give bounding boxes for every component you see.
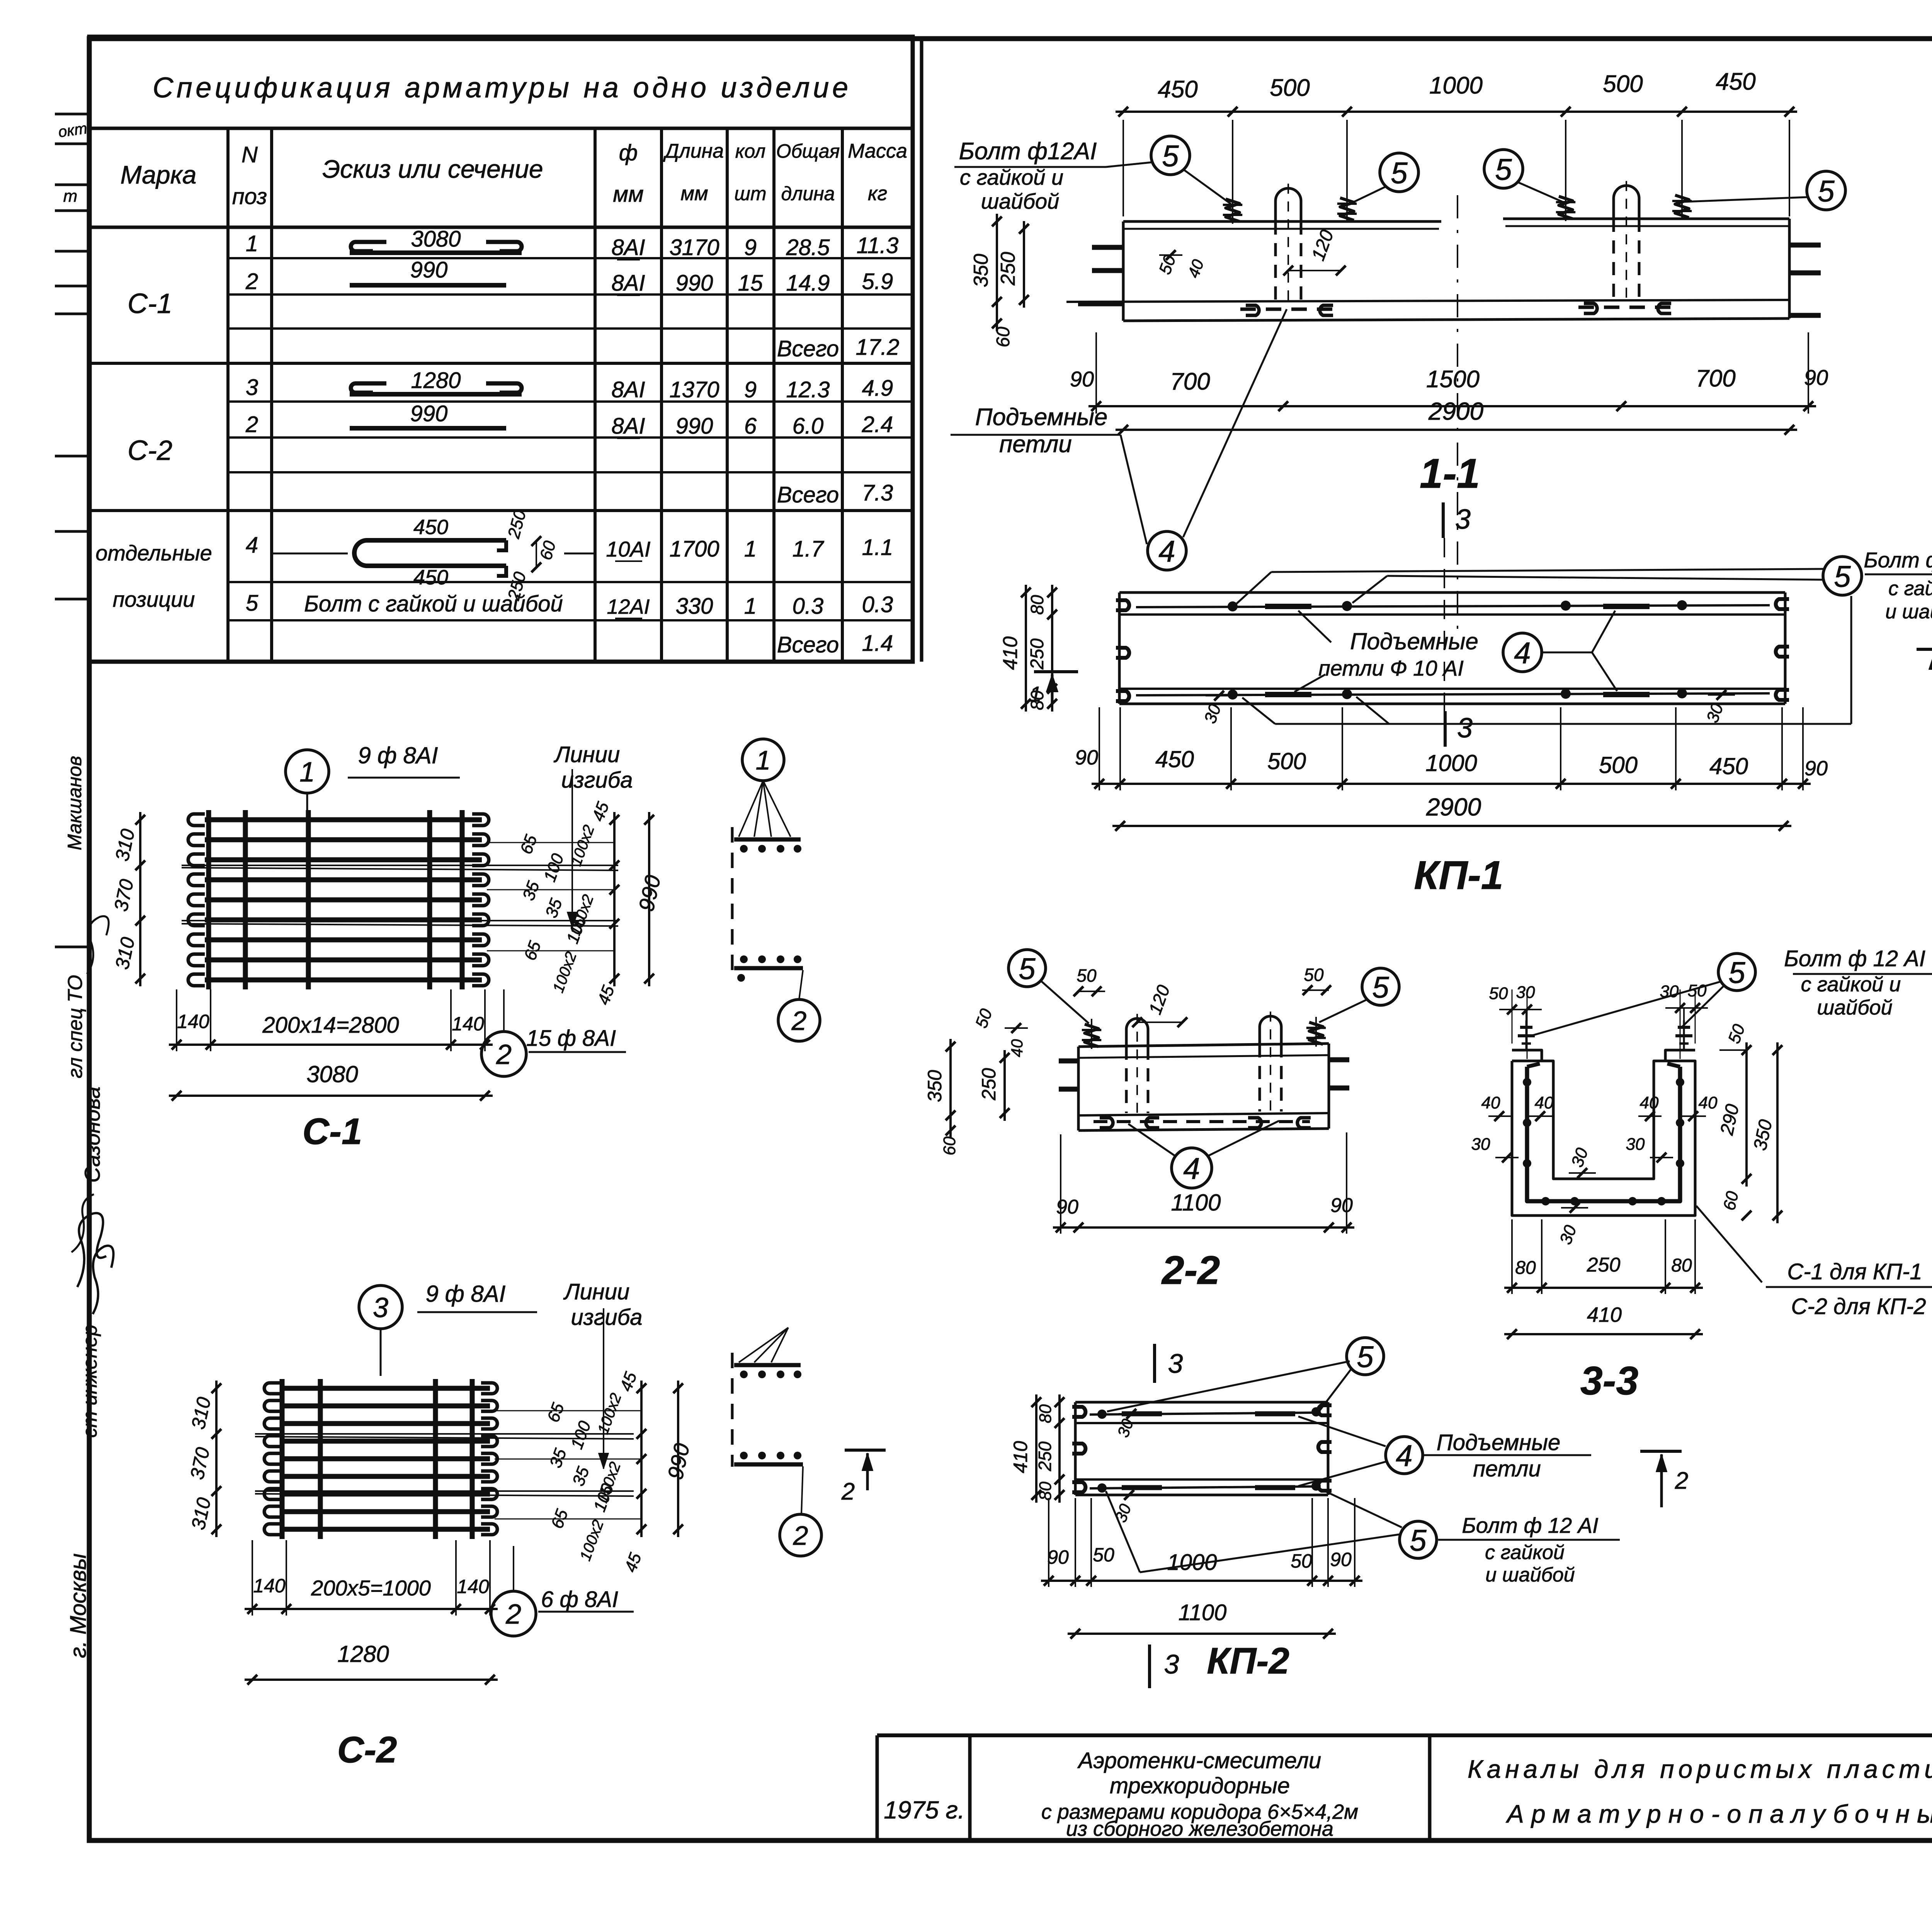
section 3-3: right dims 50 290 350 60 — [1716, 1021, 1782, 1223]
mesh С-1: right dims 990 and offsets — [487, 799, 665, 1007]
plan КП-1: outline — [1119, 592, 1785, 704]
svg-text:С-2: С-2 — [128, 435, 172, 466]
svg-text:45: 45 — [616, 1369, 641, 1394]
svg-text:50: 50 — [1489, 984, 1508, 1003]
svg-text:50: 50 — [1291, 1550, 1312, 1572]
svg-text:3: 3 — [246, 375, 258, 400]
svg-text:1000: 1000 — [1167, 1550, 1217, 1575]
svg-text:1.4: 1.4 — [862, 631, 893, 656]
svg-text:Болт ф 12 АІ: Болт ф 12 АІ — [1864, 548, 1932, 572]
section 3-3: rebar U (С-1/С-2) — [1523, 1064, 1684, 1205]
svg-text:КП-1: КП-1 — [1414, 853, 1503, 898]
plan КП-1: rebar bars with bolts — [1136, 600, 1770, 700]
svg-text:60: 60 — [536, 539, 560, 562]
plan КП-1: overall dim 2900 — [1112, 793, 1791, 831]
section 2-2: lifting loops dashed — [1126, 1011, 1281, 1113]
svg-text:700: 700 — [1170, 368, 1210, 395]
svg-text:90: 90 — [1047, 1546, 1069, 1568]
svg-text:450: 450 — [1716, 68, 1755, 95]
svg-text:3-3: 3-3 — [1580, 1359, 1638, 1403]
view 1-1: title — [1420, 450, 1480, 497]
svg-text:3: 3 — [1168, 1348, 1183, 1379]
svg-text:5: 5 — [1162, 139, 1179, 173]
svg-text:1: 1 — [756, 745, 771, 775]
section 2-2: поз4 bottom dashed bar — [1094, 1118, 1311, 1128]
left margin signature Сазонова — [80, 1086, 104, 1183]
svg-text:Марка: Марка — [120, 160, 196, 189]
svg-text:350: 350 — [1750, 1118, 1777, 1153]
svg-text:60: 60 — [940, 1136, 959, 1155]
svg-text:Линии: Линии — [563, 1279, 629, 1304]
svg-text:330: 330 — [676, 594, 713, 619]
svg-text:5: 5 — [1834, 559, 1851, 593]
svg-text:40: 40 — [1699, 1093, 1718, 1112]
svg-text:8АІ: 8АІ — [611, 377, 645, 402]
svg-text:3: 3 — [373, 1292, 388, 1323]
plan КП-2: overall dim 1100 — [1068, 1600, 1336, 1639]
svg-text:140: 140 — [177, 1011, 209, 1032]
svg-text:1370: 1370 — [669, 377, 719, 402]
left margin signature г. Москвы — [66, 1553, 91, 1658]
svg-text:с гайкой и: с гайкой и — [1801, 973, 1901, 996]
svg-text:450: 450 — [413, 516, 448, 539]
svg-text:40: 40 — [1481, 1093, 1500, 1112]
svg-text:990: 990 — [410, 257, 448, 283]
svg-text:50: 50 — [972, 1006, 996, 1030]
mesh С-1: left dims 310 370 310 — [110, 812, 145, 986]
title block: year 1975 — [884, 1796, 965, 1824]
svg-text:Болт ф 12 АІ: Болт ф 12 АІ — [1462, 1513, 1598, 1537]
svg-text:3080: 3080 — [306, 1061, 358, 1087]
svg-text:80: 80 — [1027, 595, 1047, 615]
svg-text:Эскиз или сечение: Эскиз или сечение — [322, 155, 543, 183]
svg-text:2900: 2900 — [1426, 793, 1481, 821]
svg-text:1: 1 — [744, 536, 757, 562]
svg-text:5: 5 — [1495, 152, 1512, 186]
table section label отдельные позиции — [95, 541, 212, 611]
left margin signature ст инженер — [79, 1325, 101, 1438]
svg-text:2: 2 — [841, 1478, 855, 1505]
table row поз 3: эскиз 1280 — [246, 368, 893, 402]
mesh С-2: left dims 310 370 310 — [186, 1381, 221, 1537]
svg-text:мм: мм — [613, 182, 644, 207]
section 3-3: bottom dims 80 250 80 and 410 — [1504, 1219, 1703, 1339]
svg-text:2900: 2900 — [1428, 397, 1484, 425]
mesh С-2: title — [337, 1729, 397, 1771]
svg-text:30: 30 — [1626, 1135, 1645, 1154]
svg-text:40: 40 — [1535, 1093, 1554, 1112]
svg-text:45: 45 — [621, 1550, 645, 1575]
plan КП-2: section mark 2 right — [1640, 1451, 1688, 1507]
svg-text:60: 60 — [1720, 1189, 1742, 1212]
svg-text:45: 45 — [588, 799, 613, 824]
svg-text:350: 350 — [970, 254, 992, 288]
mesh С-2: callout 2 with 6ф8АІ — [491, 1546, 634, 1636]
svg-text:7.3: 7.3 — [862, 480, 893, 506]
callout 5 circles (2-2) — [1009, 950, 1399, 1023]
table: Спецификация арматуры на одно изделие — [89, 37, 913, 662]
svg-text:4.9: 4.9 — [862, 376, 893, 401]
svg-text:2: 2 — [505, 1599, 521, 1630]
mesh С-2: right dims 990 and offsets — [495, 1369, 694, 1575]
svg-text:Всего: Всего — [777, 336, 839, 361]
callout 5 and label Болт ф12АІ (3-3) — [1531, 946, 1932, 1036]
svg-text:310: 310 — [187, 1395, 215, 1431]
section 2-2: bottom dims 90 1100 90 — [1053, 1132, 1354, 1234]
svg-text:17.2: 17.2 — [856, 335, 900, 360]
svg-text:50: 50 — [1688, 981, 1707, 1000]
svg-text:290: 290 — [1716, 1102, 1743, 1137]
svg-text:140: 140 — [457, 1576, 489, 1597]
svg-text:5: 5 — [1019, 952, 1036, 986]
svg-text:250: 250 — [1587, 1254, 1621, 1276]
section icon С-1: callout 1 — [739, 739, 791, 837]
svg-text:100x2: 100x2 — [594, 1391, 625, 1436]
svg-text:370: 370 — [186, 1445, 214, 1481]
svg-text:Линии: Линии — [553, 742, 620, 767]
plan КП-1: section mark 1 right — [1917, 649, 1932, 685]
svg-text:100: 100 — [567, 1418, 595, 1452]
svg-text:2: 2 — [245, 412, 258, 437]
svg-text:410: 410 — [1010, 1441, 1031, 1473]
svg-text:30: 30 — [1471, 1135, 1490, 1154]
svg-text:1.1: 1.1 — [862, 535, 893, 560]
svg-text:9 ф 8АІ: 9 ф 8АІ — [358, 742, 438, 768]
svg-text:8АІ: 8АІ — [611, 235, 645, 260]
svg-text:2-2: 2-2 — [1161, 1248, 1220, 1293]
svg-text:450: 450 — [413, 566, 448, 589]
svg-text:250: 250 — [1035, 1441, 1055, 1471]
svg-text:100x2: 100x2 — [549, 950, 580, 995]
view 1-1: protruding rebar ends left — [1078, 247, 1123, 304]
svg-text:990: 990 — [676, 271, 713, 296]
svg-text:Сазонова: Сазонова — [80, 1086, 104, 1183]
svg-text:5.9: 5.9 — [862, 269, 893, 294]
callout 5 and leaders (КП-1) — [1236, 548, 1932, 724]
svg-text:9: 9 — [744, 377, 757, 402]
svg-text:Каналы для пористых пластин К: Каналы для пористых пластин КП-1, КП-2. — [1468, 1755, 1932, 1783]
svg-text:9 ф 8АІ: 9 ф 8АІ — [426, 1281, 506, 1307]
svg-text:4: 4 — [1396, 1439, 1412, 1473]
view 1-1: centre dashed axis — [1457, 195, 1458, 630]
svg-text:N: N — [241, 142, 258, 167]
svg-text:изгиба: изгиба — [571, 1305, 643, 1330]
svg-text:90: 90 — [1056, 1196, 1078, 1218]
view 1-1: lifting loop left (поз 4) — [1240, 184, 1337, 315]
svg-text:5: 5 — [1357, 1340, 1374, 1374]
section icon С-1 (cross-section) — [732, 827, 803, 982]
plan КП-1: mesh hooks at ends — [1116, 599, 1789, 701]
svg-text:Всего: Всего — [777, 482, 839, 507]
callout 4 and label Подъемные петли (КП-2) — [1298, 1416, 1591, 1486]
svg-text:100: 100 — [540, 851, 568, 884]
svg-text:0.3: 0.3 — [793, 594, 824, 619]
svg-text:12.3: 12.3 — [786, 377, 830, 402]
plan КП-2: outline — [1075, 1402, 1328, 1495]
section 2-2: left dims — [924, 1006, 1028, 1155]
svg-text:12АІ: 12АІ — [607, 595, 650, 618]
svg-text:С-2: С-2 — [337, 1729, 397, 1771]
svg-text:отдельные: отдельные — [95, 541, 212, 565]
plan КП-2: rebar bars with bolts — [1090, 1407, 1321, 1493]
svg-text:28.5: 28.5 — [786, 235, 830, 260]
mesh С-2: fold lines — [255, 1434, 634, 1496]
mesh С-1: title — [303, 1111, 362, 1152]
svg-text:45: 45 — [594, 983, 618, 1007]
svg-text:500: 500 — [1603, 71, 1643, 97]
svg-text:90: 90 — [1070, 367, 1094, 391]
mesh С-2: callout 3 with 9ф8АІ — [359, 1281, 537, 1376]
svg-text:Всего: Всего — [777, 632, 839, 657]
svg-text:г. Москвы: г. Москвы — [66, 1553, 91, 1658]
svg-text:3: 3 — [1164, 1649, 1179, 1679]
section 2-2: bolts поз 5 — [1082, 1017, 1326, 1049]
svg-text:80: 80 — [1027, 690, 1047, 710]
svg-text:С-2 для КП-2: С-2 для КП-2 — [1791, 1294, 1926, 1319]
svg-text:3: 3 — [1455, 504, 1471, 535]
svg-text:90: 90 — [1075, 746, 1098, 769]
svg-text:90: 90 — [1804, 757, 1828, 780]
label Линии изгиба (С-2) — [563, 1279, 643, 1469]
svg-text:из сборного железобетона: из сборного железобетона — [1066, 1817, 1333, 1840]
plan КП-1: section mark 1 left — [1029, 672, 1078, 706]
svg-text:5: 5 — [1391, 156, 1408, 190]
section icon С-1: callout 2 — [778, 970, 820, 1041]
svg-text:шайбой: шайбой — [1817, 996, 1892, 1019]
svg-text:Спецификация арматуры на одн: Спецификация арматуры на одно изделие — [153, 72, 848, 104]
left margin signature Макшанов — [64, 756, 85, 850]
svg-text:15 ф 8АІ: 15 ф 8АІ — [526, 1026, 616, 1051]
svg-text:30: 30 — [1111, 1501, 1134, 1525]
callout 5 bottom and label Болт ф12АІ (КП-2) — [1106, 1489, 1620, 1586]
svg-text:50: 50 — [1725, 1021, 1749, 1046]
svg-text:1000: 1000 — [1425, 750, 1477, 776]
svg-text:Аэротенки-смесители: Аэротенки-смесители — [1077, 1748, 1321, 1773]
svg-text:200x5=1000: 200x5=1000 — [311, 1576, 431, 1600]
table row поз 1: эскиз 3080 — [246, 226, 898, 260]
mesh С-1: fold lines — [182, 865, 618, 926]
callout 5 top and leaders (КП-2) — [1107, 1338, 1384, 1411]
left margin stamp marks — [55, 114, 88, 947]
svg-text:2: 2 — [791, 1006, 807, 1036]
svg-text:35: 35 — [519, 878, 543, 903]
svg-text:50: 50 — [1093, 1544, 1114, 1566]
svg-text:с гайкой и: с гайкой и — [960, 165, 1063, 189]
callout 4 and label Подъемные петли (1-1) — [951, 309, 1287, 570]
label Болт ф12АІ с гайкой и шайбой (1-1) — [954, 138, 1151, 213]
divider line of drawing area — [920, 39, 923, 662]
svg-text:80: 80 — [1515, 1258, 1536, 1278]
svg-text:60: 60 — [993, 327, 1014, 347]
svg-text:шт: шт — [734, 183, 766, 204]
title block frame — [877, 1735, 1932, 1840]
svg-text:и шайбой: и шайбой — [1885, 601, 1932, 623]
svg-text:1000: 1000 — [1429, 72, 1483, 99]
plan КП-2: left dims 410 80 250 80 — [1010, 1394, 1065, 1503]
svg-text:3170: 3170 — [669, 235, 719, 260]
svg-text:30: 30 — [1201, 701, 1225, 726]
callout 4 (2-2) — [1128, 1121, 1279, 1188]
svg-text:1280: 1280 — [337, 1641, 389, 1667]
left margin signature гл спец ТО — [64, 975, 87, 1078]
svg-text:5: 5 — [1728, 955, 1745, 989]
svg-text:50: 50 — [1155, 252, 1180, 277]
plan КП-1: section mark 3 top — [1443, 502, 1471, 538]
svg-text:990: 990 — [634, 873, 665, 913]
svg-text:Болт ф12АІ: Болт ф12АІ — [959, 138, 1097, 165]
svg-text:гл спец ТО: гл спец ТО — [64, 975, 87, 1078]
svg-text:30: 30 — [1516, 983, 1535, 1002]
plan КП-2: bottom dims 90 50 1000 50 90 — [1041, 1498, 1362, 1587]
svg-text:100x2: 100x2 — [577, 1518, 607, 1563]
svg-text:1100: 1100 — [1179, 1600, 1227, 1625]
svg-text:65: 65 — [544, 1400, 568, 1425]
svg-text:500: 500 — [1599, 752, 1638, 778]
title block: sheet name — [1468, 1755, 1932, 1828]
svg-text:40: 40 — [1184, 257, 1207, 280]
svg-text:350: 350 — [924, 1070, 946, 1102]
svg-text:Подъемные: Подъемные — [1437, 1430, 1561, 1455]
svg-text:140: 140 — [452, 1013, 484, 1035]
svg-text:450: 450 — [1155, 746, 1194, 772]
svg-text:мм: мм — [680, 182, 708, 205]
svg-text:250: 250 — [504, 508, 530, 541]
svg-text:450: 450 — [1158, 76, 1197, 103]
svg-text:310: 310 — [111, 935, 139, 971]
svg-text:90: 90 — [1330, 1549, 1352, 1570]
section 3-3: top dims 50 30 30 50 — [1489, 981, 1708, 1059]
svg-text:35: 35 — [542, 896, 566, 920]
svg-text:65: 65 — [517, 832, 541, 856]
section 2-2: outline — [1078, 1044, 1329, 1130]
svg-text:410: 410 — [999, 637, 1022, 670]
svg-text:1: 1 — [744, 594, 757, 619]
mesh С-2: bottom dims 140 200x5=1000 140 and 1280 — [245, 1540, 498, 1685]
svg-text:Болт ф 12 АІ: Болт ф 12 АІ — [1784, 946, 1925, 971]
svg-text:40: 40 — [1008, 1039, 1026, 1057]
view 1-1: top dimension line 450-500-1000-500-450 — [1116, 68, 1797, 216]
callout 5 circles (1-1) — [1151, 136, 1845, 210]
table section label С-2 — [128, 435, 172, 466]
svg-text:410: 410 — [1587, 1303, 1622, 1326]
svg-text:140: 140 — [253, 1575, 286, 1597]
view 1-1: bottom dimension line 700 1500 700 — [1070, 332, 1828, 414]
section 2-2: title — [1161, 1248, 1220, 1293]
svg-text:С-1: С-1 — [303, 1111, 362, 1152]
svg-text:990: 990 — [410, 401, 448, 426]
plan КП-1: bottom dims 90 450 500 1000 500 450 90 — [1075, 707, 1828, 790]
svg-text:5: 5 — [246, 591, 259, 616]
svg-text:310: 310 — [111, 827, 139, 863]
plan КП-2: section mark 3 bottom with title — [1150, 1645, 1179, 1688]
svg-text:1-1: 1-1 — [1420, 450, 1480, 497]
plan КП-2: section mark 3 top — [1155, 1344, 1183, 1383]
svg-text:40: 40 — [1640, 1093, 1659, 1112]
mesh С-1: callout 1 with 9ф8АІ — [286, 742, 460, 819]
table row поз 2: эскиз 990 — [245, 257, 893, 296]
svg-text:5: 5 — [1410, 1523, 1427, 1557]
svg-text:310: 310 — [187, 1496, 215, 1532]
svg-text:500: 500 — [1270, 75, 1310, 101]
svg-text:80: 80 — [1036, 1404, 1055, 1423]
svg-text:250: 250 — [978, 1068, 1000, 1101]
svg-text:50: 50 — [1077, 965, 1097, 986]
mesh С-1: callout 2 with 15ф8АІ — [481, 989, 626, 1076]
svg-text:2.4: 2.4 — [862, 412, 893, 437]
svg-text:250: 250 — [997, 252, 1019, 286]
svg-text:ф: ф — [619, 140, 638, 165]
svg-text:1500: 1500 — [1426, 366, 1480, 393]
svg-text:3: 3 — [1457, 713, 1473, 744]
section 2-2: protruding bars — [1059, 1060, 1349, 1089]
svg-text:30: 30 — [1556, 1222, 1580, 1247]
label Линии изгиба (С-1) — [553, 742, 633, 928]
svg-text:Макшанов: Макшанов — [64, 756, 85, 850]
svg-text:6: 6 — [744, 414, 757, 439]
svg-text:200x14=2800: 200x14=2800 — [262, 1013, 399, 1038]
plan КП-2: title — [1207, 1640, 1289, 1682]
table section label С-1 — [128, 288, 172, 319]
section 3-3: title — [1580, 1359, 1638, 1403]
mesh С-1: bars — [188, 810, 489, 989]
svg-text:6 ф 8АІ: 6 ф 8АІ — [541, 1587, 618, 1612]
svg-text:250: 250 — [1027, 638, 1048, 670]
svg-text:ст инженер: ст инженер — [79, 1325, 101, 1438]
plan КП-1: small 30 dims — [1201, 690, 1735, 726]
svg-text:позиции: позиции — [113, 587, 195, 611]
svg-text:4: 4 — [1183, 1151, 1200, 1185]
svg-text:Подъемные: Подъемные — [975, 404, 1108, 431]
svg-text:Масса: Масса — [848, 140, 907, 162]
svg-text:окт: окт — [57, 120, 88, 141]
svg-text:0.3: 0.3 — [862, 592, 893, 617]
svg-text:поз: поз — [232, 184, 267, 209]
plan КП-2: small 30 dims — [1111, 1409, 1145, 1525]
svg-text:1.7: 1.7 — [793, 536, 825, 562]
svg-text:50: 50 — [1304, 965, 1324, 985]
view 1-1: overall dimension 2900 — [1116, 397, 1797, 435]
svg-text:35: 35 — [546, 1446, 570, 1470]
svg-text:Болт с гайкой и шайбой: Болт с гайкой и шайбой — [304, 591, 563, 616]
svg-text:8АІ: 8АІ — [611, 414, 645, 439]
svg-text:10АІ: 10АІ — [606, 537, 650, 561]
svg-text:петли Ф 10 АІ: петли Ф 10 АІ — [1318, 656, 1464, 680]
table row Всего С-2 — [777, 480, 893, 507]
svg-text:1100: 1100 — [1171, 1190, 1221, 1216]
view 1-1: left height dimensions 350 250 60 — [970, 214, 1346, 347]
svg-text:15: 15 — [738, 271, 763, 296]
mesh С-1: bottom dims 140 200x14=2800 140 and 3080 — [169, 989, 493, 1101]
label С-1 для КП-1 С-2 для КП-2 — [1696, 1206, 1932, 1319]
svg-text:30: 30 — [1568, 1145, 1592, 1170]
title block: object description — [1041, 1748, 1358, 1840]
svg-text:4: 4 — [1514, 636, 1531, 670]
svg-text:30: 30 — [1114, 1416, 1137, 1440]
table row Всего отдельные — [777, 631, 893, 657]
view 1-1: bolts поз 5 on top — [1223, 190, 1692, 224]
svg-text:1700: 1700 — [669, 536, 719, 562]
svg-text:2: 2 — [245, 269, 258, 294]
svg-text:5: 5 — [1372, 970, 1389, 1004]
svg-text:КП-2: КП-2 — [1207, 1640, 1289, 1682]
plan КП-1: left height dimensions 410 80 250 80 — [999, 585, 1057, 712]
section icon С-2: callout 2 — [780, 1466, 821, 1556]
svg-text:длина: длина — [781, 183, 835, 204]
svg-text:3080: 3080 — [411, 226, 461, 252]
svg-text:80: 80 — [1036, 1481, 1055, 1500]
table row Всего С-1 — [777, 335, 900, 361]
view 1-1: beam outline — [1066, 219, 1789, 321]
